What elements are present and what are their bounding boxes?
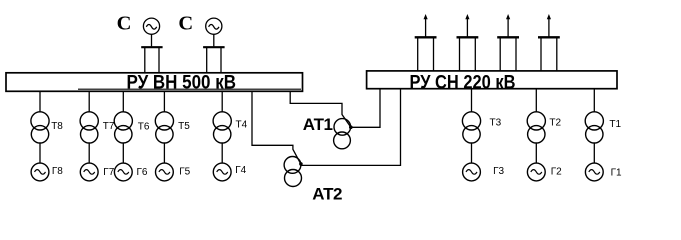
svg-text:Т8: Т8: [51, 121, 63, 132]
wire transformer T5 to generator Г5: [163, 143, 165, 163]
outgoing line W3 (220 kV, with arrow): [497, 14, 519, 72]
svg-text:Т3: Т3: [490, 118, 502, 129]
wire source C1 to bus ВН (double-circuit bay): [141, 34, 162, 73]
junction AT2 output node: [299, 162, 303, 166]
autotransformer AT2: [284, 157, 301, 187]
source C1 (system): [143, 18, 159, 34]
svg-text:Г7: Г7: [103, 167, 114, 178]
generator Г8: [31, 163, 49, 181]
transformer T5: [155, 112, 173, 143]
transformer T2: [527, 112, 545, 143]
svg-text:Г8: Г8: [52, 166, 63, 177]
wire transformer T6 to generator Г6: [122, 143, 124, 163]
transformer T8: [31, 112, 49, 143]
wire bus СН to transformer T2: [535, 89, 537, 112]
transformer T4: [213, 112, 231, 143]
generator Г2: [527, 163, 545, 181]
wire AT2 to bus СН: [301, 89, 401, 166]
transformer T6: [114, 112, 132, 143]
wire bus ВН to transformer T4: [221, 91, 223, 112]
svg-text:РУ СН 220 кВ: РУ СН 220 кВ: [410, 71, 516, 93]
svg-text:Т2: Т2: [549, 118, 561, 129]
svg-text:Г1: Г1: [611, 168, 622, 179]
wire transformer T8 to generator Г8: [39, 143, 41, 163]
wire transformer T1 to generator Г1: [593, 143, 595, 163]
svg-text:Г2: Г2: [551, 167, 562, 178]
svg-text:С: С: [117, 13, 132, 35]
wire bus СН to transformer T3: [471, 89, 473, 112]
wire AT1 to bus СН: [351, 89, 380, 128]
svg-text:Г6: Г6: [137, 167, 148, 178]
wire bus ВН to autotransformer AT1: [290, 91, 350, 127]
svg-text:АТ1: АТ1: [303, 115, 333, 134]
outgoing line W4 (220 kV, with arrow): [538, 14, 560, 72]
svg-text:Т4: Т4: [236, 119, 248, 130]
generator Г3: [463, 163, 481, 181]
svg-text:Т6: Т6: [138, 121, 150, 132]
svg-text:Г3: Г3: [493, 166, 504, 177]
transformer T7: [80, 112, 98, 143]
wire transformer T3 to generator Г3: [471, 143, 473, 163]
transformer T3: [462, 112, 480, 143]
svg-text:С: С: [178, 13, 193, 35]
autotransformer AT1: [334, 119, 351, 149]
svg-text:Г4: Г4: [235, 165, 246, 176]
wire bus ВН to transformer T7: [88, 91, 90, 112]
wire bus ВН to transformer T6: [122, 91, 124, 112]
svg-text:РУ ВН 500 кВ: РУ ВН 500 кВ: [127, 71, 237, 93]
generator Г1: [585, 163, 603, 181]
wire transformer T2 to generator Г2: [535, 143, 537, 163]
svg-text:Т5: Т5: [178, 121, 190, 132]
svg-text:АТ2: АТ2: [312, 185, 342, 204]
svg-text:Т1: Т1: [609, 119, 621, 130]
wire bus ВН to autotransformer AT2: [252, 91, 301, 164]
source C2 (system): [206, 18, 222, 34]
generator Г7: [80, 163, 98, 181]
wire source C2 to bus ВН (double-circuit bay): [203, 34, 225, 73]
generator Г4: [213, 163, 231, 181]
svg-text:Г5: Г5: [179, 167, 190, 178]
wire transformer T4 to generator Г4: [221, 143, 223, 163]
transformer T1: [585, 112, 603, 143]
wire bus ВН to transformer T8: [39, 91, 41, 112]
bus РУ СН 220 кВ (MV switchgear busbar): [367, 71, 617, 89]
outgoing line W1 (220 kV, with arrow): [415, 14, 437, 72]
junction AT1 output node: [349, 125, 353, 129]
wire bus ВН to transformer T5: [163, 91, 165, 112]
wire transformer T7 to generator Г7: [88, 143, 90, 163]
generator Г6: [114, 163, 132, 181]
svg-text:Т7: Т7: [103, 121, 115, 132]
bus РУ ВН 500 кВ (HV switchgear busbar): [6, 73, 303, 92]
outgoing line W2 (220 kV, with arrow): [457, 14, 479, 72]
generator Г5: [156, 163, 174, 181]
wire bus СН to transformer T1: [593, 89, 595, 112]
